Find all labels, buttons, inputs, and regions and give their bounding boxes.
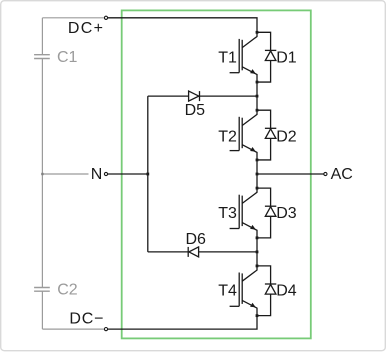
wire T1-T2 link: [256, 82, 258, 110]
svg-text:N: N: [91, 166, 103, 183]
wire gray DC- feeder: [42, 328, 104, 330]
wire DC+ into module to T1 collector: [108, 18, 257, 33]
diode D3: [265, 207, 276, 217]
wire D6 branch: [148, 251, 257, 253]
svg-text:T1: T1: [218, 50, 237, 67]
diode D6: [189, 247, 199, 257]
svg-text:D4: D4: [276, 283, 297, 300]
transistor T2 (IGBT): [242, 110, 257, 125]
capacitor C2: [34, 288, 50, 292]
junction D5 at chain: [256, 95, 259, 98]
svg-text:AC: AC: [331, 166, 353, 183]
wire T3-T4 link: [256, 238, 258, 266]
junction D6 at chain: [256, 251, 259, 254]
wire clamp rail vertical: [147, 96, 149, 252]
node T4 emitter: [256, 314, 259, 317]
node T1 collector: [256, 31, 259, 34]
wire D4 branch: [257, 266, 271, 316]
svg-text:D3: D3: [276, 205, 297, 222]
diode D1: [265, 51, 276, 61]
wire D2 branch: [257, 110, 271, 160]
wire T2-T3 link (phase leg): [256, 160, 258, 188]
node T3 collector: [256, 187, 259, 190]
svg-text:D6: D6: [186, 231, 207, 248]
transistor T4 (IGBT): [242, 266, 257, 281]
diode D2: [265, 129, 276, 139]
terminal DC+: [104, 16, 107, 19]
wire gray N feeder: [42, 173, 88, 175]
terminal AC: [324, 172, 327, 175]
wire D5 branch: [148, 95, 257, 97]
terminal DC-: [104, 328, 107, 331]
node T2 collector: [256, 109, 259, 112]
junction phase node AC: [256, 173, 259, 176]
wire AC output: [257, 173, 324, 175]
svg-text:C2: C2: [57, 282, 78, 299]
diode D5: [189, 91, 199, 101]
svg-text:D5: D5: [185, 102, 206, 119]
node T3 emitter: [256, 236, 259, 239]
wire gray DC-link rail (C1 to C2): [41, 59, 43, 288]
svg-text:T4: T4: [218, 283, 237, 300]
wire gray DC-link rail (C2 to DC-): [41, 291, 43, 329]
capacitor C1: [34, 55, 50, 59]
wire N into module to clamp rail: [108, 173, 148, 175]
svg-text:T3: T3: [218, 205, 237, 222]
svg-text:DC+: DC+: [68, 20, 104, 37]
svg-text:D2: D2: [276, 128, 297, 145]
green module boundary box: [122, 10, 311, 338]
diode D4: [265, 285, 276, 295]
wire gray DC+ feeder: [42, 17, 104, 19]
terminal N: [104, 172, 107, 175]
wire D3 branch: [257, 188, 271, 238]
transistor T1 (IGBT): [242, 32, 257, 47]
node T4 collector: [256, 265, 259, 268]
svg-text:C1: C1: [57, 49, 78, 66]
transistor T3 (IGBT): [242, 188, 257, 203]
wire D1 branch: [257, 32, 271, 82]
svg-text:D1: D1: [276, 50, 297, 67]
svg-text:T2: T2: [218, 128, 237, 145]
node T1 emitter: [256, 81, 259, 84]
wire gray DC-link rail (DC+ to C1): [41, 18, 43, 55]
node T2 emitter: [256, 159, 259, 162]
junction clamp rail at N: [146, 173, 149, 176]
wire T4 emitter to DC-: [108, 316, 257, 329]
junction N on DC-link rail: [41, 173, 43, 175]
svg-text:DC−: DC−: [69, 310, 104, 327]
